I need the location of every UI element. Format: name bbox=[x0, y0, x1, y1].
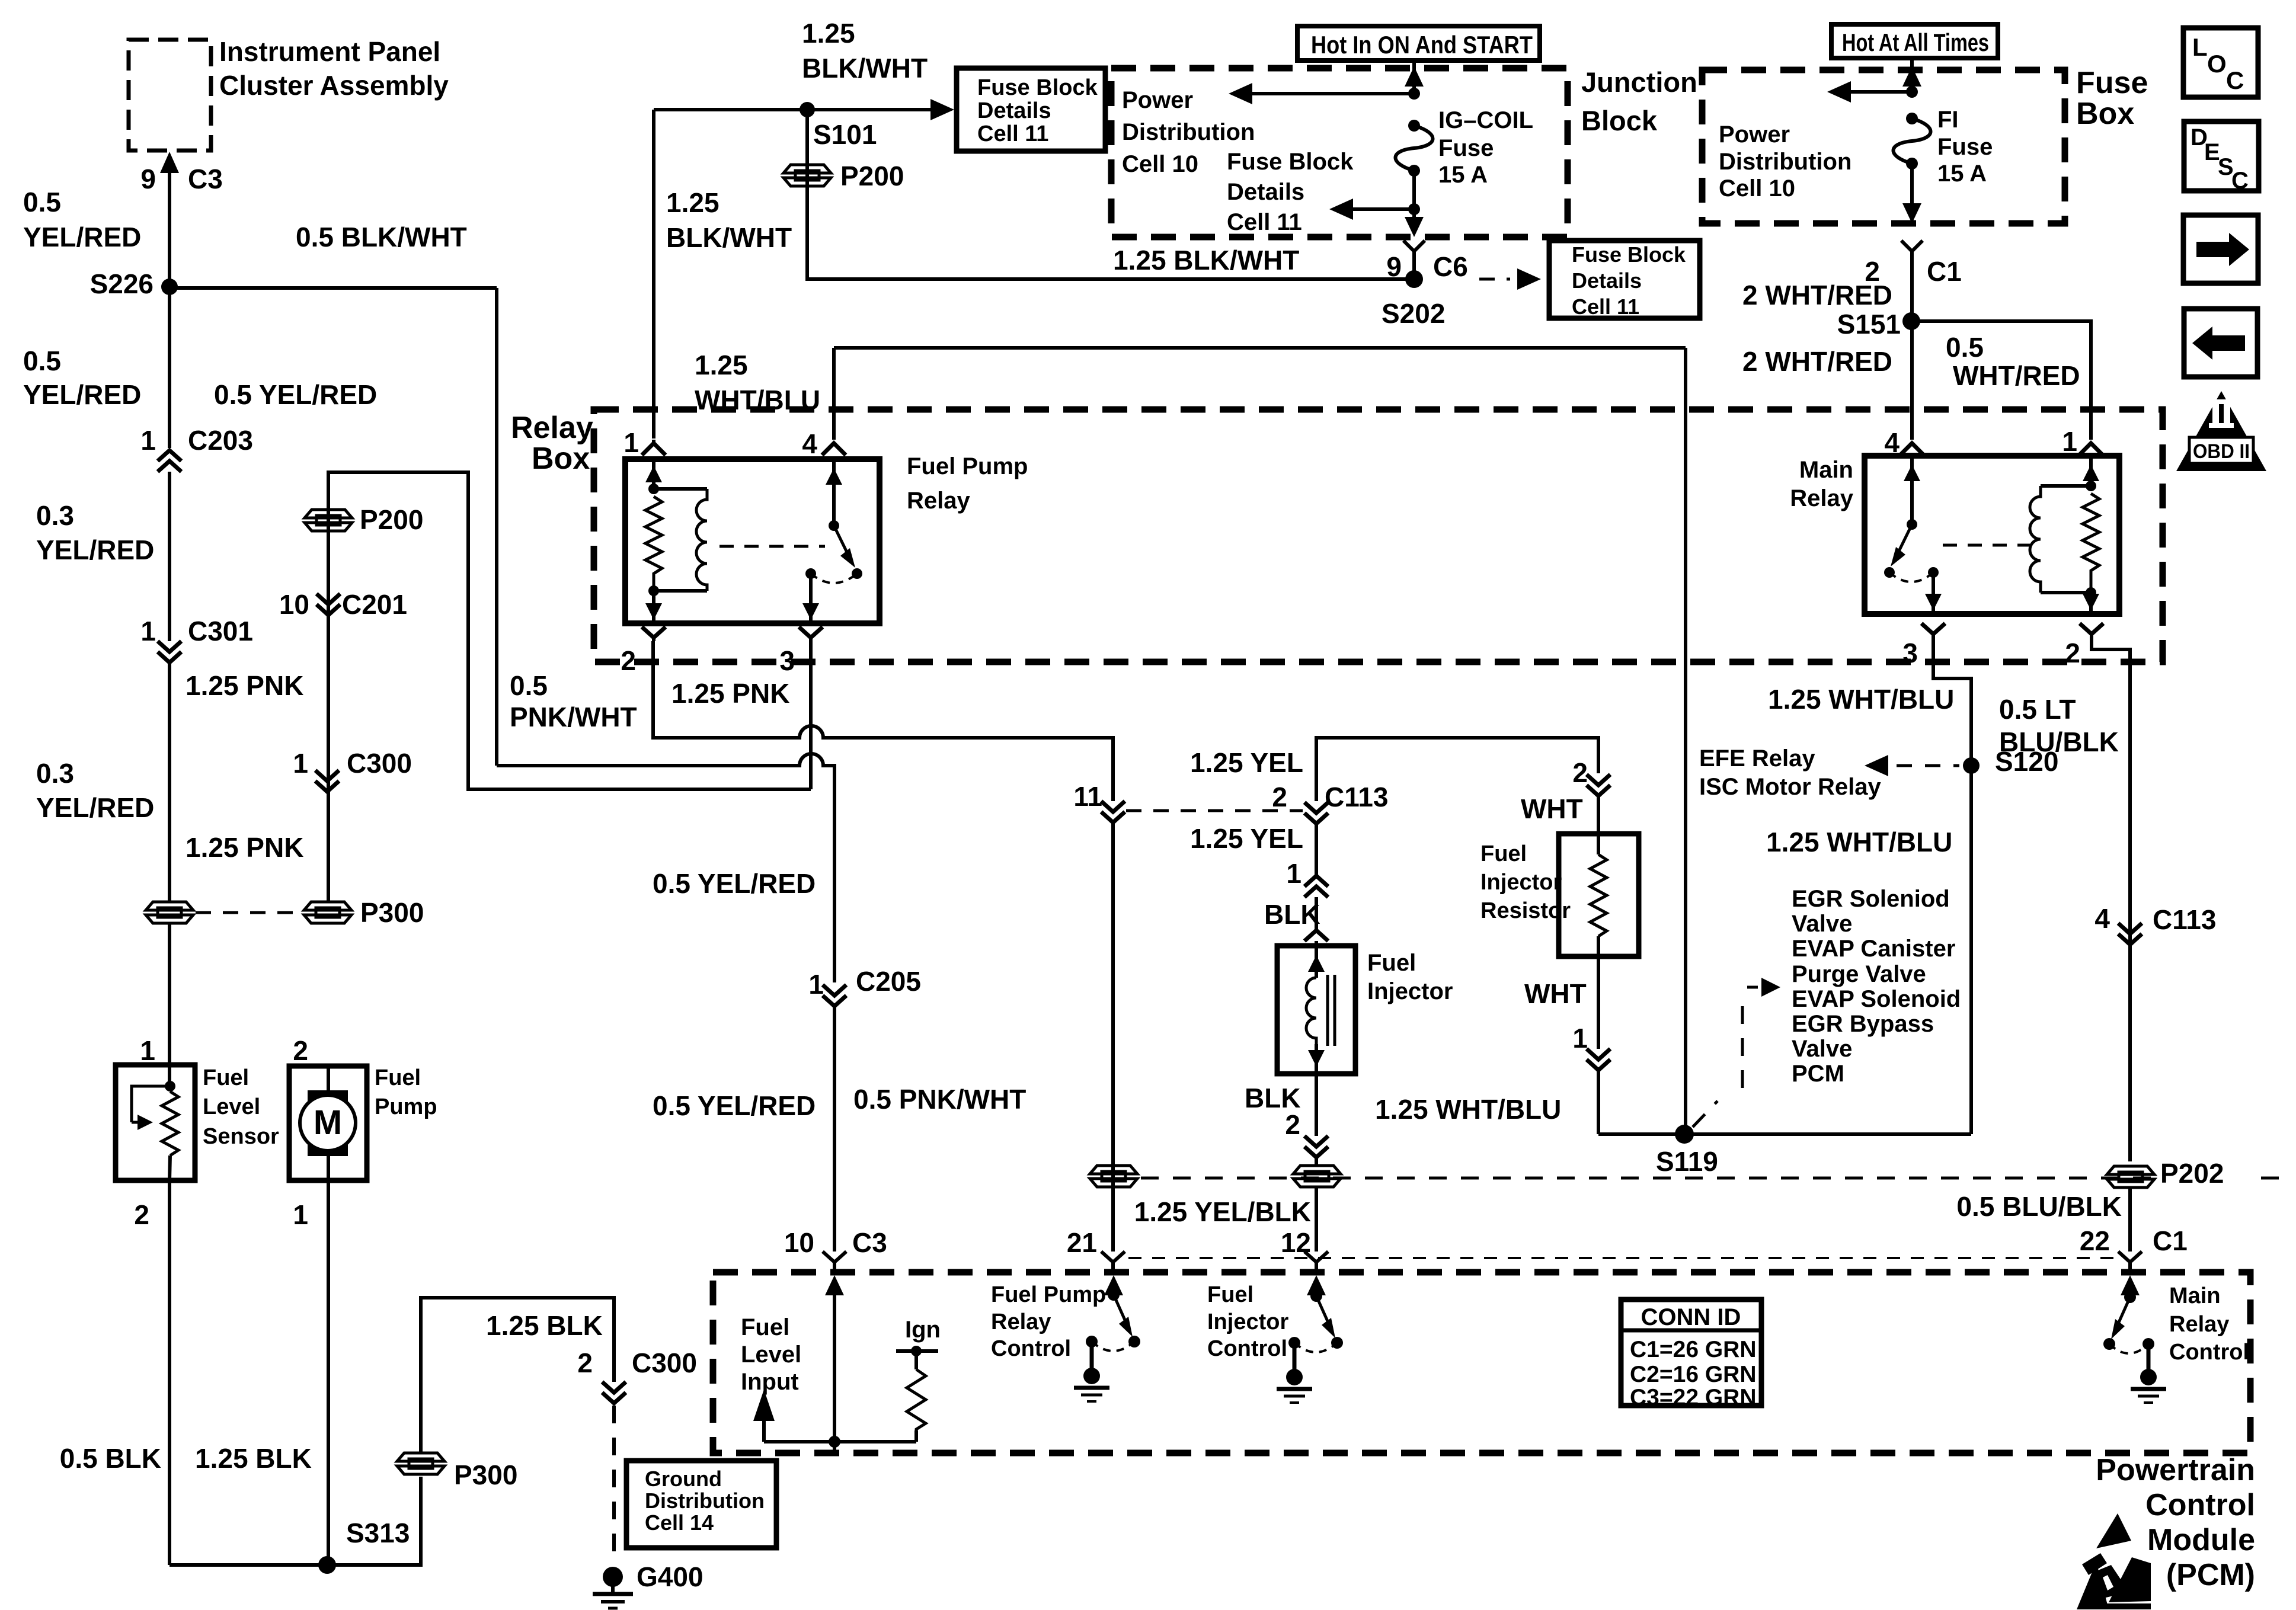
svg-text:0.5: 0.5 bbox=[23, 345, 61, 376]
connector C300 pin 1 bbox=[293, 748, 412, 792]
svg-text:11: 11 bbox=[1073, 781, 1102, 812]
wire C1-2 to S151 (2 WHT/RED) bbox=[1910, 263, 1914, 321]
svg-text:Fuse: Fuse bbox=[1438, 135, 1494, 161]
svg-text:1: 1 bbox=[140, 1035, 155, 1066]
svg-text:10: 10 bbox=[279, 589, 309, 620]
wire S101 horizontal with arrow to fuse block details bbox=[654, 99, 954, 120]
svg-text:YEL/RED: YEL/RED bbox=[36, 534, 154, 565]
wire main relay pin3 to S119 bus (1.25 WHT/BLU) bbox=[1933, 640, 1971, 1134]
svg-text:1.25 WHT/BLU: 1.25 WHT/BLU bbox=[1768, 684, 1954, 715]
svg-text:BLK: BLK bbox=[1264, 899, 1320, 930]
wire label 0.3 YEL/RED (second) bbox=[36, 758, 154, 823]
in-line connector P202 bbox=[2107, 1158, 2247, 1189]
connector C3 pin 10 bbox=[784, 1227, 887, 1272]
wire label 0.5 YEL/RED (two line, left) bbox=[23, 345, 141, 410]
svg-text:Fuse Block: Fuse Block bbox=[1572, 242, 1686, 267]
fuel level sensor pin 2 label bbox=[134, 1199, 149, 1230]
wire label 1.25 WHT/BLU (pin3 run) bbox=[1766, 827, 1952, 857]
svg-text:S120: S120 bbox=[1995, 746, 2058, 777]
svg-text:Cell 14: Cell 14 bbox=[645, 1510, 714, 1535]
IG-COIL fuse labels bbox=[1438, 107, 1533, 188]
svg-text:Details: Details bbox=[1227, 179, 1304, 205]
svg-text:WHT/BLU: WHT/BLU bbox=[695, 385, 820, 415]
wire C113-2 down to injector pin 1 bbox=[1315, 824, 1318, 876]
wire resistor to S119 (WHT / 1.25 WHT/BLU) bbox=[1375, 956, 1610, 1134]
node S120 bbox=[1963, 746, 2058, 777]
wire 0.5 YEL/RED corner to C205 wire (with hop over pin3 wire) bbox=[497, 754, 834, 982]
dashed arrow S120 to EFE relay bbox=[1865, 755, 1959, 776]
svg-text:Ign: Ign bbox=[905, 1317, 941, 1343]
fuel pump relay coil-to-switch dashed link bbox=[720, 545, 825, 548]
fuse block details cell 11 box (upper) bbox=[957, 68, 1105, 151]
long dashed connector line bbox=[1141, 1177, 2292, 1180]
svg-text:3: 3 bbox=[1902, 638, 1918, 668]
main relay coil-to-switch dashed link bbox=[1943, 544, 2030, 547]
wire S151 to main relay pin 4 bbox=[1910, 321, 1914, 440]
svg-text:Relay: Relay bbox=[991, 1310, 1051, 1334]
svg-text:1: 1 bbox=[293, 1199, 308, 1230]
wire label 1.25 BLK/WHT (above S101) bbox=[802, 18, 928, 84]
svg-text:WHT/RED: WHT/RED bbox=[1953, 360, 2080, 391]
svg-text:Injector: Injector bbox=[1367, 978, 1453, 1004]
svg-text:Fuel: Fuel bbox=[1367, 950, 1416, 976]
node S313 bbox=[318, 1518, 410, 1574]
fuel pump bbox=[289, 1065, 437, 1180]
wire S226 to C203 bbox=[168, 287, 171, 448]
wire C301 to P300 (1.25 PNK) bbox=[168, 662, 171, 902]
wire P202 to PCM 22 (0.5 BLU/BLK) bbox=[1956, 1188, 2187, 1272]
svg-text:1.25: 1.25 bbox=[666, 187, 720, 218]
svg-text:1.25 PNK: 1.25 PNK bbox=[186, 832, 303, 863]
svg-text:S101: S101 bbox=[813, 119, 877, 150]
wire label 2 WHT/RED (lower) bbox=[1742, 346, 1892, 377]
svg-text:C1=26 GRN: C1=26 GRN bbox=[1630, 1337, 1757, 1362]
wire resistor drop 2 WHT bbox=[1521, 757, 1610, 834]
svg-text:C: C bbox=[2231, 168, 2249, 194]
svg-text:M: M bbox=[314, 1103, 342, 1142]
svg-text:YEL/RED: YEL/RED bbox=[36, 792, 154, 823]
svg-text:22: 22 bbox=[2080, 1225, 2110, 1256]
svg-text:Input: Input bbox=[741, 1369, 799, 1395]
IG-COIL fuse symbol bbox=[1396, 120, 1433, 209]
svg-text:BLK/WHT: BLK/WHT bbox=[802, 53, 928, 84]
ESD warning symbol bbox=[2077, 1513, 2151, 1609]
svg-text:1: 1 bbox=[293, 748, 308, 779]
arrow to power distribution (fuse box) bbox=[1827, 81, 1912, 103]
svg-text:Block: Block bbox=[1581, 105, 1658, 136]
wire label 1.25 PNK (pin 3 wire) bbox=[671, 678, 789, 709]
svg-text:ISC Motor Relay: ISC Motor Relay bbox=[1699, 774, 1881, 800]
node S202 bbox=[1382, 270, 1445, 329]
hot in on and start box bbox=[1297, 26, 1540, 60]
svg-text:Relay: Relay bbox=[907, 488, 970, 514]
fuel pump relay control label bbox=[991, 1282, 1106, 1361]
svg-text:G400: G400 bbox=[637, 1561, 703, 1592]
svg-text:1.25 YEL: 1.25 YEL bbox=[1190, 823, 1303, 854]
in-line connector (on pin 21 wire) bbox=[1090, 1166, 1137, 1187]
svg-text:1.25 WHT/BLU: 1.25 WHT/BLU bbox=[1375, 1094, 1561, 1125]
svg-text:4: 4 bbox=[802, 428, 817, 459]
svg-text:Fuse: Fuse bbox=[1937, 134, 1993, 160]
svg-text:P200: P200 bbox=[840, 161, 904, 191]
svg-text:C3: C3 bbox=[188, 164, 223, 194]
svg-text:Ground: Ground bbox=[645, 1467, 722, 1491]
EFE relay / ISC motor relay labels bbox=[1699, 745, 1881, 800]
svg-text:OBD II: OBD II bbox=[2193, 440, 2250, 463]
thin dashed connector line above PCM bbox=[1128, 1257, 2116, 1259]
svg-text:2: 2 bbox=[134, 1199, 149, 1230]
svg-text:Relay: Relay bbox=[2169, 1312, 2229, 1337]
svg-text:S202: S202 bbox=[1382, 298, 1445, 329]
svg-text:2: 2 bbox=[621, 645, 636, 676]
svg-text:Hot At All Times: Hot At All Times bbox=[1842, 28, 1989, 56]
svg-text:C3: C3 bbox=[852, 1227, 887, 1258]
connector C201 pin 10 bbox=[279, 589, 407, 620]
svg-text:C301: C301 bbox=[188, 616, 253, 646]
svg-text:P300: P300 bbox=[454, 1459, 517, 1490]
svg-text:1: 1 bbox=[140, 425, 156, 456]
svg-text:YEL/RED: YEL/RED bbox=[23, 379, 141, 410]
svg-text:C113: C113 bbox=[2153, 904, 2216, 935]
svg-text:Fuse Block: Fuse Block bbox=[977, 75, 1098, 100]
svg-text:15 A: 15 A bbox=[1937, 161, 1987, 187]
svg-text:Purge Valve: Purge Valve bbox=[1792, 961, 1926, 987]
PCM labels bbox=[2096, 1453, 2255, 1592]
fuel pump relay bbox=[625, 453, 1028, 623]
svg-text:0.3: 0.3 bbox=[36, 500, 74, 531]
svg-text:Cell 11: Cell 11 bbox=[1227, 209, 1302, 235]
svg-text:C: C bbox=[2226, 66, 2244, 94]
svg-text:Fuel: Fuel bbox=[1207, 1282, 1253, 1307]
svg-text:0.5 YEL/RED: 0.5 YEL/RED bbox=[214, 379, 377, 410]
connector C300 pin 2 bbox=[577, 1347, 697, 1403]
svg-text:IG–COIL: IG–COIL bbox=[1438, 107, 1533, 133]
svg-text:EGR Soleniod: EGR Soleniod bbox=[1792, 886, 1950, 912]
LOC box bbox=[2183, 28, 2258, 97]
svg-text:Fuse Block: Fuse Block bbox=[1227, 149, 1354, 175]
svg-text:3: 3 bbox=[779, 645, 795, 676]
svg-text:2: 2 bbox=[293, 1035, 308, 1066]
svg-text:2 WHT/RED: 2 WHT/RED bbox=[1742, 280, 1892, 311]
PCM main relay control switch bbox=[2103, 1275, 2166, 1403]
svg-text:C203: C203 bbox=[188, 425, 253, 456]
svg-text:15 A: 15 A bbox=[1438, 162, 1488, 188]
fuel injector resistor bbox=[1480, 834, 1639, 956]
powertrain control module PCM (dashed box) bbox=[713, 1272, 2250, 1453]
wire to PCM pin 12 (1.25 YEL/BLK) bbox=[1134, 1187, 1328, 1272]
wire 11 down to PCM 21 bbox=[1111, 822, 1115, 1251]
fuel pump pin labels bbox=[293, 1035, 308, 1230]
PCM fuel pump relay control switch bbox=[1074, 1275, 1140, 1453]
connector C113 pin 4 bbox=[2094, 903, 2216, 945]
svg-text:C6: C6 bbox=[1433, 251, 1468, 282]
svg-text:O: O bbox=[2207, 50, 2227, 78]
svg-text:1.25: 1.25 bbox=[802, 18, 855, 49]
svg-text:9: 9 bbox=[1386, 251, 1402, 282]
svg-text:Distribution: Distribution bbox=[645, 1489, 765, 1513]
svg-text:Distribution: Distribution bbox=[1719, 149, 1851, 175]
svg-text:L: L bbox=[2192, 33, 2208, 61]
main relay pin 1 bbox=[2062, 426, 2103, 457]
svg-text:S313: S313 bbox=[346, 1518, 410, 1548]
fuel pump relay coil side internals bbox=[645, 459, 707, 623]
fuel injector bbox=[1277, 946, 1453, 1074]
svg-text:2: 2 bbox=[577, 1347, 593, 1378]
DESC box bbox=[2184, 121, 2259, 194]
svg-text:C2=16 GRN: C2=16 GRN bbox=[1630, 1362, 1757, 1387]
svg-text:YEL/RED: YEL/RED bbox=[23, 222, 141, 252]
connector C301 pin 1 bbox=[140, 616, 253, 662]
svg-text:BLK/WHT: BLK/WHT bbox=[666, 222, 792, 253]
svg-text:1.25 BLK/WHT: 1.25 BLK/WHT bbox=[1113, 245, 1299, 276]
svg-text:FI: FI bbox=[1937, 107, 1959, 133]
wire injector pin 2 BLK down bbox=[1245, 1074, 1328, 1164]
svg-text:1: 1 bbox=[140, 616, 156, 646]
FI fuse symbol bbox=[1894, 113, 1931, 209]
connector C3 pin 21 bbox=[1067, 1227, 1125, 1272]
svg-text:Cell 11: Cell 11 bbox=[977, 121, 1048, 146]
svg-text:9: 9 bbox=[140, 164, 156, 194]
svg-text:1.25 YEL/BLK: 1.25 YEL/BLK bbox=[1134, 1196, 1311, 1227]
in-line connector P300 (left half) bbox=[146, 902, 193, 923]
svg-text:Main: Main bbox=[1799, 457, 1853, 483]
svg-text:1.25: 1.25 bbox=[695, 350, 748, 380]
wire ground bus at bottom bbox=[170, 1477, 421, 1565]
svg-text:Box: Box bbox=[532, 441, 590, 476]
main relay switch internals bbox=[1884, 456, 1942, 614]
svg-text:(PCM): (PCM) bbox=[2166, 1558, 2255, 1592]
svg-text:P202: P202 bbox=[2160, 1158, 2224, 1189]
svg-text:Fuel: Fuel bbox=[1480, 841, 1527, 866]
svg-text:C205: C205 bbox=[856, 966, 921, 997]
svg-text:Level: Level bbox=[203, 1094, 260, 1119]
svg-text:Fuel: Fuel bbox=[375, 1065, 421, 1090]
svg-text:Module: Module bbox=[2147, 1523, 2255, 1557]
svg-text:Box: Box bbox=[2076, 97, 2134, 131]
dashed arrow S202 to fuse block details bbox=[1479, 268, 1541, 290]
wire label 2 WHT/RED (upper) bbox=[1742, 280, 1892, 311]
wire label 0.5 YEL/RED (below C205) bbox=[653, 1090, 816, 1121]
wire C205 to PCM pin 10 bbox=[833, 1006, 836, 1251]
wire label 1.25 BLK/WHT (left of P200) bbox=[666, 187, 792, 253]
svg-text:Injector: Injector bbox=[1480, 870, 1562, 895]
svg-text:Fuel: Fuel bbox=[741, 1314, 789, 1340]
wire P300 up and over to C300-2 bbox=[421, 1298, 614, 1453]
svg-text:EVAP Canister: EVAP Canister bbox=[1792, 936, 1955, 962]
in-line connector P300 (lower, on ground wire) bbox=[397, 1453, 517, 1490]
connector C3 pin 9 labels bbox=[140, 164, 222, 194]
wire label 0.5 WHT/RED bbox=[1946, 332, 2080, 391]
svg-text:CONN ID: CONN ID bbox=[1641, 1304, 1741, 1330]
svg-text:Cluster Assembly: Cluster Assembly bbox=[219, 70, 449, 101]
node on fuse box feed bbox=[1906, 86, 1918, 98]
EGR equipment list bbox=[1792, 886, 1961, 1087]
svg-text:0.5: 0.5 bbox=[510, 670, 548, 701]
ground G400 bbox=[593, 1561, 703, 1608]
Ign pull-up resistor bbox=[896, 1317, 941, 1442]
fuel pump relay pin 1 bbox=[623, 427, 666, 458]
wire 0.5 BLK/WHT down to fuel pump relay pin 1 bbox=[652, 110, 655, 438]
svg-text:Powertrain: Powertrain bbox=[2096, 1453, 2255, 1487]
svg-text:P300: P300 bbox=[360, 897, 424, 928]
junction block (dashed) bbox=[1111, 66, 1697, 237]
fuel level input label bbox=[741, 1314, 801, 1395]
node S101 bbox=[800, 102, 877, 150]
wire P300 to fuel level sensor pin 1 bbox=[140, 923, 170, 1066]
wire label 0.5 BLK bbox=[60, 1443, 161, 1474]
svg-text:2: 2 bbox=[1572, 757, 1588, 788]
connector C113 pin 2 (YEL wire) bbox=[1272, 782, 1388, 824]
wire label 1.25 YEL (lower) bbox=[1190, 823, 1303, 854]
wire pump pin1 down (1.25 BLK) to S313 bbox=[327, 1180, 330, 1565]
fuse box (dashed) bbox=[1702, 66, 2148, 223]
junction block feed wire with up arrow bbox=[1405, 60, 1424, 94]
svg-text:EGR Bypass: EGR Bypass bbox=[1792, 1011, 1934, 1037]
svg-text:Fuel Pump: Fuel Pump bbox=[991, 1282, 1106, 1307]
svg-text:C300: C300 bbox=[347, 748, 412, 779]
svg-text:Power: Power bbox=[1122, 87, 1193, 113]
svg-text:C1: C1 bbox=[2153, 1225, 2188, 1256]
wire fuel pump feed chain top corner bbox=[328, 472, 811, 902]
CONN ID table bbox=[1621, 1299, 1761, 1410]
svg-text:1: 1 bbox=[808, 969, 824, 1000]
svg-text:Injector: Injector bbox=[1207, 1310, 1288, 1334]
svg-text:Control: Control bbox=[991, 1336, 1071, 1361]
svg-text:P200: P200 bbox=[360, 504, 423, 535]
svg-text:C3=22 GRN: C3=22 GRN bbox=[1630, 1385, 1757, 1410]
node S226 bbox=[90, 268, 178, 299]
ground distribution cell 14 box bbox=[626, 1461, 776, 1548]
wire relay box to fuel pump relay pin 4 bbox=[832, 348, 836, 440]
svg-text:Relay: Relay bbox=[511, 411, 593, 445]
wire label 0.5 YEL/RED (upper) bbox=[23, 187, 141, 252]
svg-text:Pump: Pump bbox=[375, 1094, 437, 1119]
svg-text:Junction: Junction bbox=[1581, 66, 1697, 98]
wire fp relay pin2 to PCM 21 (0.5 PNK/WHT, hop over pin3 wire) bbox=[653, 641, 1113, 801]
power distribution cell 10 label (fuse box) bbox=[1719, 121, 1851, 201]
wire S151 branch to main relay pin 1 (0.5 WHT/RED) bbox=[1912, 321, 2091, 440]
main relay control label bbox=[2169, 1283, 2249, 1365]
svg-text:S226: S226 bbox=[90, 268, 154, 299]
wire x2844 down to S119 bbox=[1684, 348, 1687, 1134]
connector C203 pin 1 bbox=[140, 425, 253, 472]
main relay coil side internals bbox=[2030, 456, 2099, 614]
svg-text:Distribution: Distribution bbox=[1122, 119, 1255, 145]
svg-text:1.25 BLK: 1.25 BLK bbox=[195, 1443, 312, 1474]
svg-text:WHT: WHT bbox=[1524, 978, 1587, 1009]
svg-text:1.25 WHT/BLU: 1.25 WHT/BLU bbox=[1766, 827, 1952, 857]
connector C1 pin 2 (fuse box output) bbox=[1865, 241, 1961, 287]
svg-text:1: 1 bbox=[623, 427, 639, 458]
svg-text:S151: S151 bbox=[1837, 309, 1901, 340]
svg-text:1.25 PNK: 1.25 PNK bbox=[186, 670, 303, 701]
main relay pin 2 bbox=[2065, 623, 2103, 668]
svg-text:Control: Control bbox=[1207, 1336, 1287, 1361]
svg-text:2: 2 bbox=[1272, 782, 1287, 812]
wire label 1.25 PNK (left column) bbox=[186, 670, 303, 701]
fuse block details cell 11 label (junction block) bbox=[1227, 149, 1354, 235]
node on junction feed bbox=[1408, 88, 1420, 100]
wire S119 horizontal bus bbox=[1598, 1132, 1971, 1136]
PCM fuel level input circuit bbox=[753, 1275, 916, 1453]
in-line connector P300 (right half) bbox=[304, 897, 424, 928]
svg-text:Cell 10: Cell 10 bbox=[1122, 151, 1198, 177]
svg-text:Fuel: Fuel bbox=[203, 1065, 249, 1090]
wire sensor pin2 down (0.5 BLK) bbox=[168, 1180, 171, 1565]
svg-text:4: 4 bbox=[2094, 903, 2110, 934]
svg-text:4: 4 bbox=[1884, 427, 1900, 458]
wire main relay pin4 feed horizontal 1.25 WHT/BLU bbox=[834, 346, 1686, 350]
svg-text:Control: Control bbox=[2145, 1488, 2255, 1522]
svg-text:Resistor: Resistor bbox=[1480, 898, 1571, 923]
wire label 1.25 PNK (pump chain lower) bbox=[186, 832, 303, 863]
connector C6 pin 9 bbox=[1386, 241, 1467, 282]
svg-text:Control: Control bbox=[2169, 1340, 2249, 1365]
PCM fuel injector control switch bbox=[1277, 1275, 1343, 1403]
dashed link between P300 halves bbox=[196, 911, 302, 914]
svg-text:1.25 PNK: 1.25 PNK bbox=[671, 678, 789, 709]
instrument panel cluster assembly (dashed box) bbox=[129, 36, 449, 151]
svg-text:Sensor: Sensor bbox=[203, 1124, 279, 1149]
wire cluster C3-9 to S226 (0.5 YEL/RED) bbox=[160, 152, 179, 287]
in-line connector (on injector wire) bbox=[1293, 1166, 1341, 1187]
svg-text:Cell 11: Cell 11 bbox=[1572, 295, 1639, 319]
svg-text:EFE Relay: EFE Relay bbox=[1699, 745, 1815, 772]
in-line connector P200 (on pump feed) bbox=[305, 504, 423, 535]
main relay pin 4 bbox=[1884, 427, 1924, 458]
wire S226 to corner (0.5 BLK/WHT branch) bbox=[170, 286, 497, 290]
power distribution cell 10 label (junction block) bbox=[1122, 87, 1255, 177]
svg-text:0.5 BLK/WHT: 0.5 BLK/WHT bbox=[296, 222, 467, 252]
svg-text:1.25 YEL: 1.25 YEL bbox=[1190, 747, 1303, 778]
svg-text:C201: C201 bbox=[342, 589, 407, 620]
fuel pump relay pin 2 bbox=[621, 627, 666, 676]
node below fuse + arrow to fuse block details bbox=[1329, 199, 1420, 220]
fuel injector control label bbox=[1207, 1282, 1288, 1361]
svg-text:Hot In ON And START: Hot In ON And START bbox=[1311, 31, 1533, 59]
connector pin 11 bbox=[1073, 781, 1125, 822]
arrow to power distribution (junction block) bbox=[1229, 83, 1414, 104]
svg-text:C113: C113 bbox=[1325, 782, 1388, 812]
wire label 0.5 PNK/WHT (two line) bbox=[510, 670, 637, 732]
wire bridge to injector and resistor drops bbox=[1316, 738, 1598, 801]
dashed link 11 to C113-2 bbox=[1126, 809, 1303, 812]
wire label 1.25 BLK bbox=[195, 1443, 312, 1474]
left arrow box bbox=[2184, 309, 2257, 377]
svg-text:Valve: Valve bbox=[1792, 911, 1852, 937]
FI fuse labels bbox=[1937, 107, 1993, 187]
fuse box exit arrow down bbox=[1902, 203, 1921, 223]
wire label 1.25 YEL (upper) bbox=[1190, 747, 1303, 778]
fuel level sensor bbox=[116, 1065, 279, 1180]
svg-text:Main: Main bbox=[2169, 1283, 2221, 1308]
junction block exit arrow down bbox=[1405, 209, 1424, 237]
svg-text:Instrument Panel: Instrument Panel bbox=[219, 36, 440, 67]
svg-text:Details: Details bbox=[1572, 268, 1642, 293]
wire C203 to C301 (0.3 YEL/RED) bbox=[168, 472, 171, 641]
node S119 bbox=[1656, 1125, 1718, 1177]
svg-text:PCM: PCM bbox=[1792, 1061, 1844, 1087]
wire label 1.25 WHT/BLU (above S119 run) bbox=[1768, 684, 1954, 715]
wire S101 down through P200 to S202 (1.25 BLK/WHT) bbox=[807, 110, 1406, 279]
svg-text:EVAP Solenoid: EVAP Solenoid bbox=[1792, 986, 1961, 1012]
wire label 0.5 YEL/RED (above C205) bbox=[653, 868, 816, 899]
svg-text:WHT: WHT bbox=[1521, 793, 1583, 824]
wire main relay pin2 to P202 (0.5 LT BLU/BLK) bbox=[2092, 640, 2130, 1161]
wire vertical x838 down (0.5 YEL/RED to PCM) bbox=[495, 288, 498, 766]
svg-text:0.5: 0.5 bbox=[1946, 332, 1984, 363]
svg-text:Cell 10: Cell 10 bbox=[1719, 175, 1795, 201]
